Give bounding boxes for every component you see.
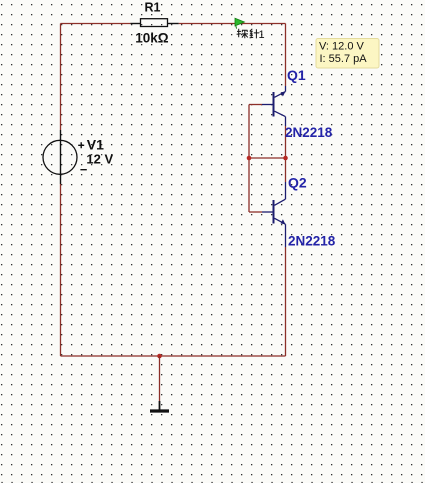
wire Q1 collector to mid node [285,126,287,158]
wire left vertical below V1 [60,184,62,356]
wire mid node to Q2 collector [285,158,287,182]
wire right vertical (top corner to Q1 emitter) [285,24,287,87]
junction node mid-right [283,156,288,161]
label 探针1 [237,29,260,39]
wire Q2 emitter to bottom rail [285,247,287,356]
svg-text:I: 55.7 pA: I: 55.7 pA [320,53,368,65]
ground [150,356,169,411]
probe arrow 探针1 [235,18,244,28]
minus mark [80,169,86,171]
wire Q1 base stub [249,104,262,106]
plus mark [78,142,84,148]
svg-text:V: 12.0 V: V: 12.0 V [319,41,365,53]
junction ground node [157,354,162,359]
wire left inner vertical (Q1 base to Q2 base) [248,105,250,213]
wire bottom rail [61,355,286,357]
transistor Q1 (mirrored NPN, emitter up) [262,86,286,126]
svg-text:10kΩ: 10kΩ [135,30,169,45]
wire top rail [61,23,131,25]
transistor Q2 (NPN, emitter down) [262,182,286,247]
junction node mid-left [247,156,252,161]
wire left vertical above V1 [60,24,62,131]
svg-text:12 V: 12 V [86,152,113,167]
wire Q2 base stub [249,211,262,213]
svg-text:R1: R1 [145,0,161,14]
svg-text:2N2218: 2N2218 [288,234,336,249]
svg-text:1: 1 [259,29,265,41]
wire mid rail [249,157,286,159]
resistor R1 [130,19,178,27]
measurement box [316,39,379,69]
svg-text:Q1: Q1 [287,67,306,83]
bottom edge partial dot row [1,482,425,483]
source V1 [43,130,77,184]
svg-text:V1: V1 [87,136,104,152]
svg-text:2N2218: 2N2218 [285,125,333,140]
svg-text:Q2: Q2 [288,175,307,191]
wire top rail right of resistor [179,23,286,25]
